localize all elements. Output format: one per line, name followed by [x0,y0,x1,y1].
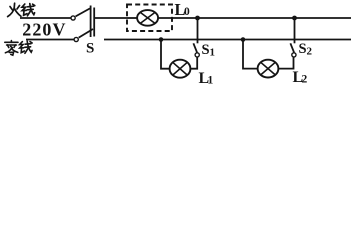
knife switch S: contact bars [90,6,92,38]
node: junction of branch 2 on live rail [292,16,297,21]
wire: live rail from 火线 to switch [20,17,71,19]
svg-text:1: 1 [210,47,216,59]
node: junction of branch 1 on live rail [195,16,200,21]
wire: switch S1 to lamp L1 [190,57,197,69]
switch S1 blade [193,43,197,52]
svg-text:2: 2 [302,74,308,86]
svg-text:220V: 220V [22,20,66,40]
label 火线 (live wire text) [8,3,35,16]
wire: lamp L1 up to neutral rail [161,40,170,69]
node: junction of branch 2 on neutral rail [241,37,246,42]
switch S2 lower terminal [292,53,296,57]
knife switch S: top terminal [71,16,75,20]
svg-text:S: S [299,41,307,57]
wire: live rail from lamp L0 to right edge [158,17,351,19]
knife switch S: bottom blade [79,29,93,38]
knife switch S: bottom terminal [74,37,78,41]
dashed box around L0 [127,5,172,32]
wire into lamp L0 [127,17,137,19]
svg-text:0: 0 [184,6,190,18]
svg-text:S: S [202,42,210,58]
lamp L0 [137,10,158,26]
wire: lamp L2 up to neutral rail [243,40,258,69]
wire: switch S2 to lamp L2 [278,57,293,69]
switch S1 lower terminal [195,53,199,57]
switch S2 blade [290,43,294,52]
lamp L1 [170,60,191,78]
lamp L2 [258,60,279,78]
wire: live rail from switch to dashed box [95,17,127,19]
label 零线 (neutral wire text) [5,41,32,56]
knife switch S: top blade [76,8,90,16]
svg-text:2: 2 [307,46,313,58]
wire: neutral rail from switch to right edge [104,39,351,41]
svg-text:S: S [86,41,94,57]
node: junction of branch 1 on neutral rail [159,37,164,42]
svg-text:1: 1 [208,75,214,87]
wire: neutral rail from 零线 to switch [26,39,74,41]
wire: branch 1 vertical from live rail, crossing neutral [197,18,199,43]
wire: branch 2 vertical from live rail, crossing neutral [294,18,296,43]
